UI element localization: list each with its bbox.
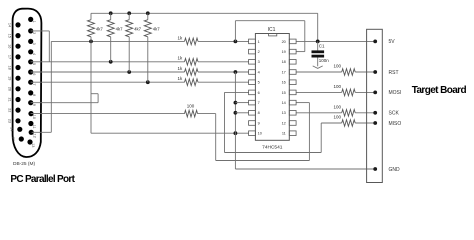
wire IC pin8 stub [235, 112, 248, 114]
op IC1 74HC541 body [255, 34, 289, 141]
svg-text:22: 22 [8, 108, 12, 112]
J1 pin 9 [28, 100, 36, 106]
svg-text:1k: 1k [178, 56, 184, 61]
wire R9 to riser [198, 113, 216, 115]
ground symbol [313, 66, 323, 69]
resistor 100 (SCK) [342, 110, 356, 117]
resistor R9 100 [185, 110, 198, 117]
connector J2 target board [367, 29, 383, 182]
svg-text:20: 20 [282, 40, 286, 44]
svg-text:14: 14 [282, 101, 286, 105]
svg-text:4: 4 [32, 53, 36, 55]
wire J1 pin9 [31, 102, 99, 104]
svg-text:6: 6 [258, 91, 260, 95]
svg-text:1k: 1k [178, 76, 184, 81]
resistor R6 1k [185, 59, 199, 66]
wire MISO row to R13 [321, 122, 342, 124]
junction rail / R4 [146, 11, 150, 15]
wire OE link top [235, 20, 304, 22]
J1 pin 7 [28, 80, 36, 86]
wire ground bus to target GND [235, 168, 375, 170]
IC1 pin 10 box [249, 131, 262, 136]
junction row B / R2 [109, 60, 113, 64]
IC1 pin 15 box [282, 90, 297, 95]
resistor R3 4k7 [126, 13, 142, 72]
svg-text:Target Board: Target Board [412, 85, 467, 96]
J1 pin 8 [28, 90, 36, 96]
junction rail / R3 [127, 11, 131, 15]
wire R to target SCK [355, 112, 375, 114]
svg-text:15: 15 [8, 34, 12, 38]
IC1 pin 6 box [249, 90, 260, 95]
IC1 pin 9 box [249, 121, 260, 126]
svg-text:7: 7 [258, 101, 260, 105]
resistor 100 (RST) [342, 69, 356, 76]
junction target MOSI [373, 91, 377, 95]
wire IC pin15 to R (MOSI) [296, 91, 342, 93]
J1 pin 1 [28, 17, 36, 23]
J1 pin 2 [28, 28, 36, 34]
wire pin10 to R9 [31, 113, 185, 115]
junction target GND [373, 167, 377, 171]
resistor R7 1k [185, 69, 199, 76]
svg-text:1k: 1k [178, 66, 184, 71]
svg-text:14: 14 [8, 23, 12, 27]
svg-text:1k: 1k [178, 35, 184, 40]
svg-text:4k7: 4k7 [134, 26, 142, 31]
wire riser x321 [320, 123, 322, 153]
svg-text:12: 12 [282, 121, 286, 125]
svg-text:19: 19 [282, 50, 286, 54]
wire riser x309 [308, 103, 310, 161]
wire loop row 1 [225, 152, 322, 154]
svg-text:100n: 100n [319, 58, 330, 63]
wire R to target RST [355, 71, 375, 73]
svg-text:3: 3 [32, 43, 36, 45]
svg-text:4k7: 4k7 [96, 26, 104, 31]
svg-text:5: 5 [258, 81, 260, 85]
wire R to target MOSI [355, 91, 375, 93]
svg-text:PC Parallel Port: PC Parallel Port [10, 174, 75, 185]
svg-text:13: 13 [282, 111, 286, 115]
J1 pin 6 [28, 69, 36, 75]
wire 5V riser [317, 13, 319, 41]
J1 pin 16 [8, 44, 21, 49]
IC1 pin 14 box [282, 100, 297, 105]
junction row C / ground bus [234, 70, 238, 74]
J1 pin 15 [8, 33, 21, 38]
svg-text:18: 18 [8, 66, 12, 70]
svg-text:100: 100 [334, 115, 342, 120]
wire row B after R6 [198, 61, 249, 63]
J1 pin 21 [8, 97, 21, 102]
J1 pin 20 [8, 86, 21, 91]
wire row C after R7 [198, 71, 249, 73]
J1 pin 19 [8, 76, 21, 81]
J1 pin 13 [27, 139, 35, 147]
connector J1 DB-25 outline [13, 9, 42, 157]
svg-text:DB-25 (M): DB-25 (M) [13, 161, 36, 167]
junction ground bus / IC pin7 [234, 101, 238, 105]
svg-text:11: 11 [32, 125, 36, 129]
svg-text:16: 16 [282, 81, 286, 85]
IC1 pin 12 box [282, 121, 297, 126]
wire 5V rail [91, 12, 318, 14]
svg-text:11: 11 [282, 132, 286, 136]
svg-text:100: 100 [334, 84, 342, 89]
IC1 pin 18 box [282, 60, 297, 65]
IC1 pin 19 box [282, 49, 297, 54]
junction ground bus / IC pin8 [234, 111, 238, 115]
wire ground bus vertical [234, 72, 236, 169]
wire pin6 to R7 (row C) [31, 71, 185, 73]
wire IC pin19 stub [296, 51, 305, 53]
IC1 pin 7 box [249, 100, 260, 105]
svg-text:2: 2 [32, 32, 36, 34]
junction row D / R4 [146, 80, 150, 84]
junction target 5V [373, 40, 377, 44]
IC1 pin 17 box [282, 70, 297, 75]
svg-text:17: 17 [8, 55, 12, 59]
svg-text:3: 3 [258, 60, 260, 64]
J1 pin 3 [28, 39, 36, 45]
resistor R1 4k7 [88, 13, 104, 41]
IC1 pin 4 box [249, 70, 260, 75]
wire x91 corner to IC pin10 [91, 132, 249, 134]
wire row D after R8 [198, 81, 249, 83]
resistor R4 4k7 [144, 13, 160, 82]
resistor R8 1k [185, 79, 199, 86]
svg-text:21: 21 [8, 98, 12, 102]
svg-text:20: 20 [8, 87, 12, 91]
wire IC pin20 to target 5V [296, 40, 375, 42]
wire OE riser left [234, 21, 236, 42]
wire IC pin14 stub [296, 102, 309, 104]
junction target RST [373, 70, 377, 74]
J1 pin 22 [8, 108, 21, 113]
svg-text:6: 6 [32, 73, 36, 75]
svg-text:100: 100 [334, 104, 342, 109]
IC1 pin 1 box [249, 39, 260, 44]
J1 pin 14 [8, 22, 21, 27]
wire pin5 to R6 (row B) [31, 61, 185, 63]
svg-text:2: 2 [258, 50, 260, 54]
J1 pin 11 [28, 121, 36, 129]
svg-text:5: 5 [32, 63, 36, 65]
wire IC pin6 stub [225, 91, 249, 93]
svg-text:8: 8 [32, 94, 36, 96]
svg-text:23: 23 [8, 119, 12, 123]
svg-text:5V: 5V [389, 39, 396, 45]
wire OE riser right [304, 21, 306, 52]
junction target MISO [373, 121, 377, 125]
resistor 100 (MOSI) [342, 89, 356, 96]
svg-text:RST: RST [389, 70, 399, 76]
svg-text:19: 19 [8, 76, 12, 80]
svg-text:100: 100 [187, 104, 195, 109]
junction row A / R1 [89, 40, 93, 44]
junction 5V / C1 [316, 40, 320, 44]
svg-text:MOSI: MOSI [389, 90, 402, 96]
wire J1 pin2 horizontal [31, 30, 50, 32]
junction row C / R3 [127, 70, 131, 74]
junction row A / OE riser [234, 40, 238, 44]
J1 pin 4 [28, 49, 36, 55]
J1 pin 23 [8, 118, 21, 123]
wire row A (from pin-12 riser) to R5 [51, 40, 184, 42]
svg-text:GND: GND [389, 167, 401, 173]
J1 pin 25 [11, 136, 24, 141]
svg-text:12: 12 [32, 134, 36, 138]
svg-text:100: 100 [334, 64, 342, 69]
wire vertical x91 [90, 41, 92, 133]
wire R13 to target MISO [355, 122, 375, 124]
wire loop row 2 [216, 160, 310, 162]
wire pin9 jog horizontal [91, 93, 98, 95]
svg-text:7: 7 [32, 83, 36, 85]
svg-text:MISO: MISO [389, 121, 402, 127]
svg-text:IC1: IC1 [268, 27, 276, 33]
svg-text:10: 10 [32, 115, 36, 119]
wire J1 pin12 horizontal [32, 131, 52, 133]
IC1 pin 8 box [249, 111, 260, 116]
IC1 pin 11 box [282, 131, 296, 136]
svg-text:74HC541: 74HC541 [262, 144, 283, 150]
wire IC pin13 to R (SCK) [296, 112, 342, 114]
J1 pin 12 [29, 130, 37, 138]
wire IC pin7 stub [235, 102, 248, 104]
wire pin7 to R8 (row D) [31, 81, 185, 83]
IC1 pin 5 box [249, 80, 260, 85]
junction rail / R2 [109, 11, 113, 15]
J1 pin 5 [28, 59, 36, 65]
J1 pin 18 [8, 65, 21, 70]
wire IC pin17 to R (RST) [296, 71, 342, 73]
svg-text:17: 17 [282, 70, 286, 74]
svg-text:25: 25 [11, 137, 15, 141]
IC1 pin 13 box [282, 111, 297, 116]
junction pin10 row / ground bus [234, 131, 238, 135]
svg-text:18: 18 [282, 60, 286, 64]
J1 pin 10 [28, 111, 36, 119]
svg-text:4k7: 4k7 [116, 26, 124, 31]
svg-text:9: 9 [32, 104, 36, 106]
IC1 pin 2 box [249, 49, 260, 54]
wire J1 pin2 riser [48, 31, 50, 62]
svg-text:4: 4 [258, 70, 260, 74]
svg-text:1: 1 [32, 21, 36, 23]
svg-text:24: 24 [9, 127, 13, 131]
svg-text:9: 9 [258, 121, 260, 125]
IC1 pin 3 box [249, 60, 260, 65]
wire vertical A [224, 92, 226, 152]
svg-text:8: 8 [258, 111, 260, 115]
svg-text:4k7: 4k7 [153, 26, 161, 31]
IC1 pin 16 box [282, 80, 297, 85]
J1 pin 17 [8, 54, 21, 59]
svg-text:C1: C1 [319, 44, 325, 49]
resistor R2 4k7 [107, 13, 123, 62]
junction target SCK [373, 111, 377, 115]
svg-text:13: 13 [31, 143, 35, 147]
wire riser x215 [215, 114, 217, 161]
svg-text:16: 16 [8, 44, 12, 48]
capacitor C1 [312, 41, 325, 66]
svg-text:15: 15 [282, 91, 286, 95]
svg-text:10: 10 [258, 132, 262, 136]
svg-text:1: 1 [258, 40, 260, 44]
IC1 pin 20 box [282, 39, 297, 44]
J1 pin 24 [9, 127, 22, 132]
wire pin9 jog vertical [97, 94, 99, 103]
wire row A after R5 [198, 40, 249, 42]
svg-text:SCK: SCK [389, 111, 400, 117]
resistor R5 1k [185, 38, 199, 45]
wire J1 pin12 riser [50, 41, 52, 132]
resistor R13 100 [342, 120, 356, 127]
